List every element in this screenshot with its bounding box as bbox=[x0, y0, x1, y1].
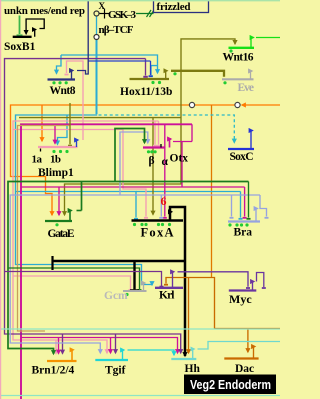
svg-text:Bra: Bra bbox=[234, 227, 253, 239]
svg-text:Wnt8: Wnt8 bbox=[50, 85, 76, 97]
svg-text:Krl: Krl bbox=[159, 290, 175, 302]
svg-text:1a: 1a bbox=[32, 154, 43, 166]
svg-text:GSK–3: GSK–3 bbox=[108, 9, 137, 21]
svg-text:FoxA: FoxA bbox=[141, 225, 174, 239]
svg-text:frizzled: frizzled bbox=[157, 1, 191, 13]
svg-text:Blimp1: Blimp1 bbox=[38, 167, 74, 179]
svg-text:α: α bbox=[162, 156, 169, 168]
svg-text:Hh: Hh bbox=[185, 363, 201, 375]
svg-text:Gcm: Gcm bbox=[104, 290, 128, 302]
svg-text:Veg2 Endoderm: Veg2 Endoderm bbox=[190, 377, 271, 392]
svg-text:β: β bbox=[149, 155, 155, 167]
svg-text:6: 6 bbox=[161, 194, 167, 208]
svg-text:SoxC: SoxC bbox=[230, 151, 254, 163]
svg-text:Brn1/2/4: Brn1/2/4 bbox=[32, 365, 75, 377]
svg-text:nβ–TCF: nβ–TCF bbox=[99, 24, 134, 36]
svg-text:Otx: Otx bbox=[170, 153, 189, 165]
svg-text:X: X bbox=[99, 1, 106, 11]
svg-text:1b: 1b bbox=[50, 154, 61, 166]
svg-text:Eve: Eve bbox=[238, 82, 255, 94]
svg-text:Hox11/13b: Hox11/13b bbox=[120, 86, 172, 98]
svg-text:Wnt16: Wnt16 bbox=[223, 52, 254, 64]
svg-text:Myc: Myc bbox=[229, 292, 252, 306]
svg-text:Tgif: Tgif bbox=[105, 365, 126, 377]
svg-text:Dac: Dac bbox=[235, 363, 254, 375]
svg-text:GataE: GataE bbox=[48, 228, 75, 240]
svg-text:unkn mes/end rep: unkn mes/end rep bbox=[4, 5, 85, 17]
svg-text:SoxB1: SoxB1 bbox=[4, 41, 36, 53]
